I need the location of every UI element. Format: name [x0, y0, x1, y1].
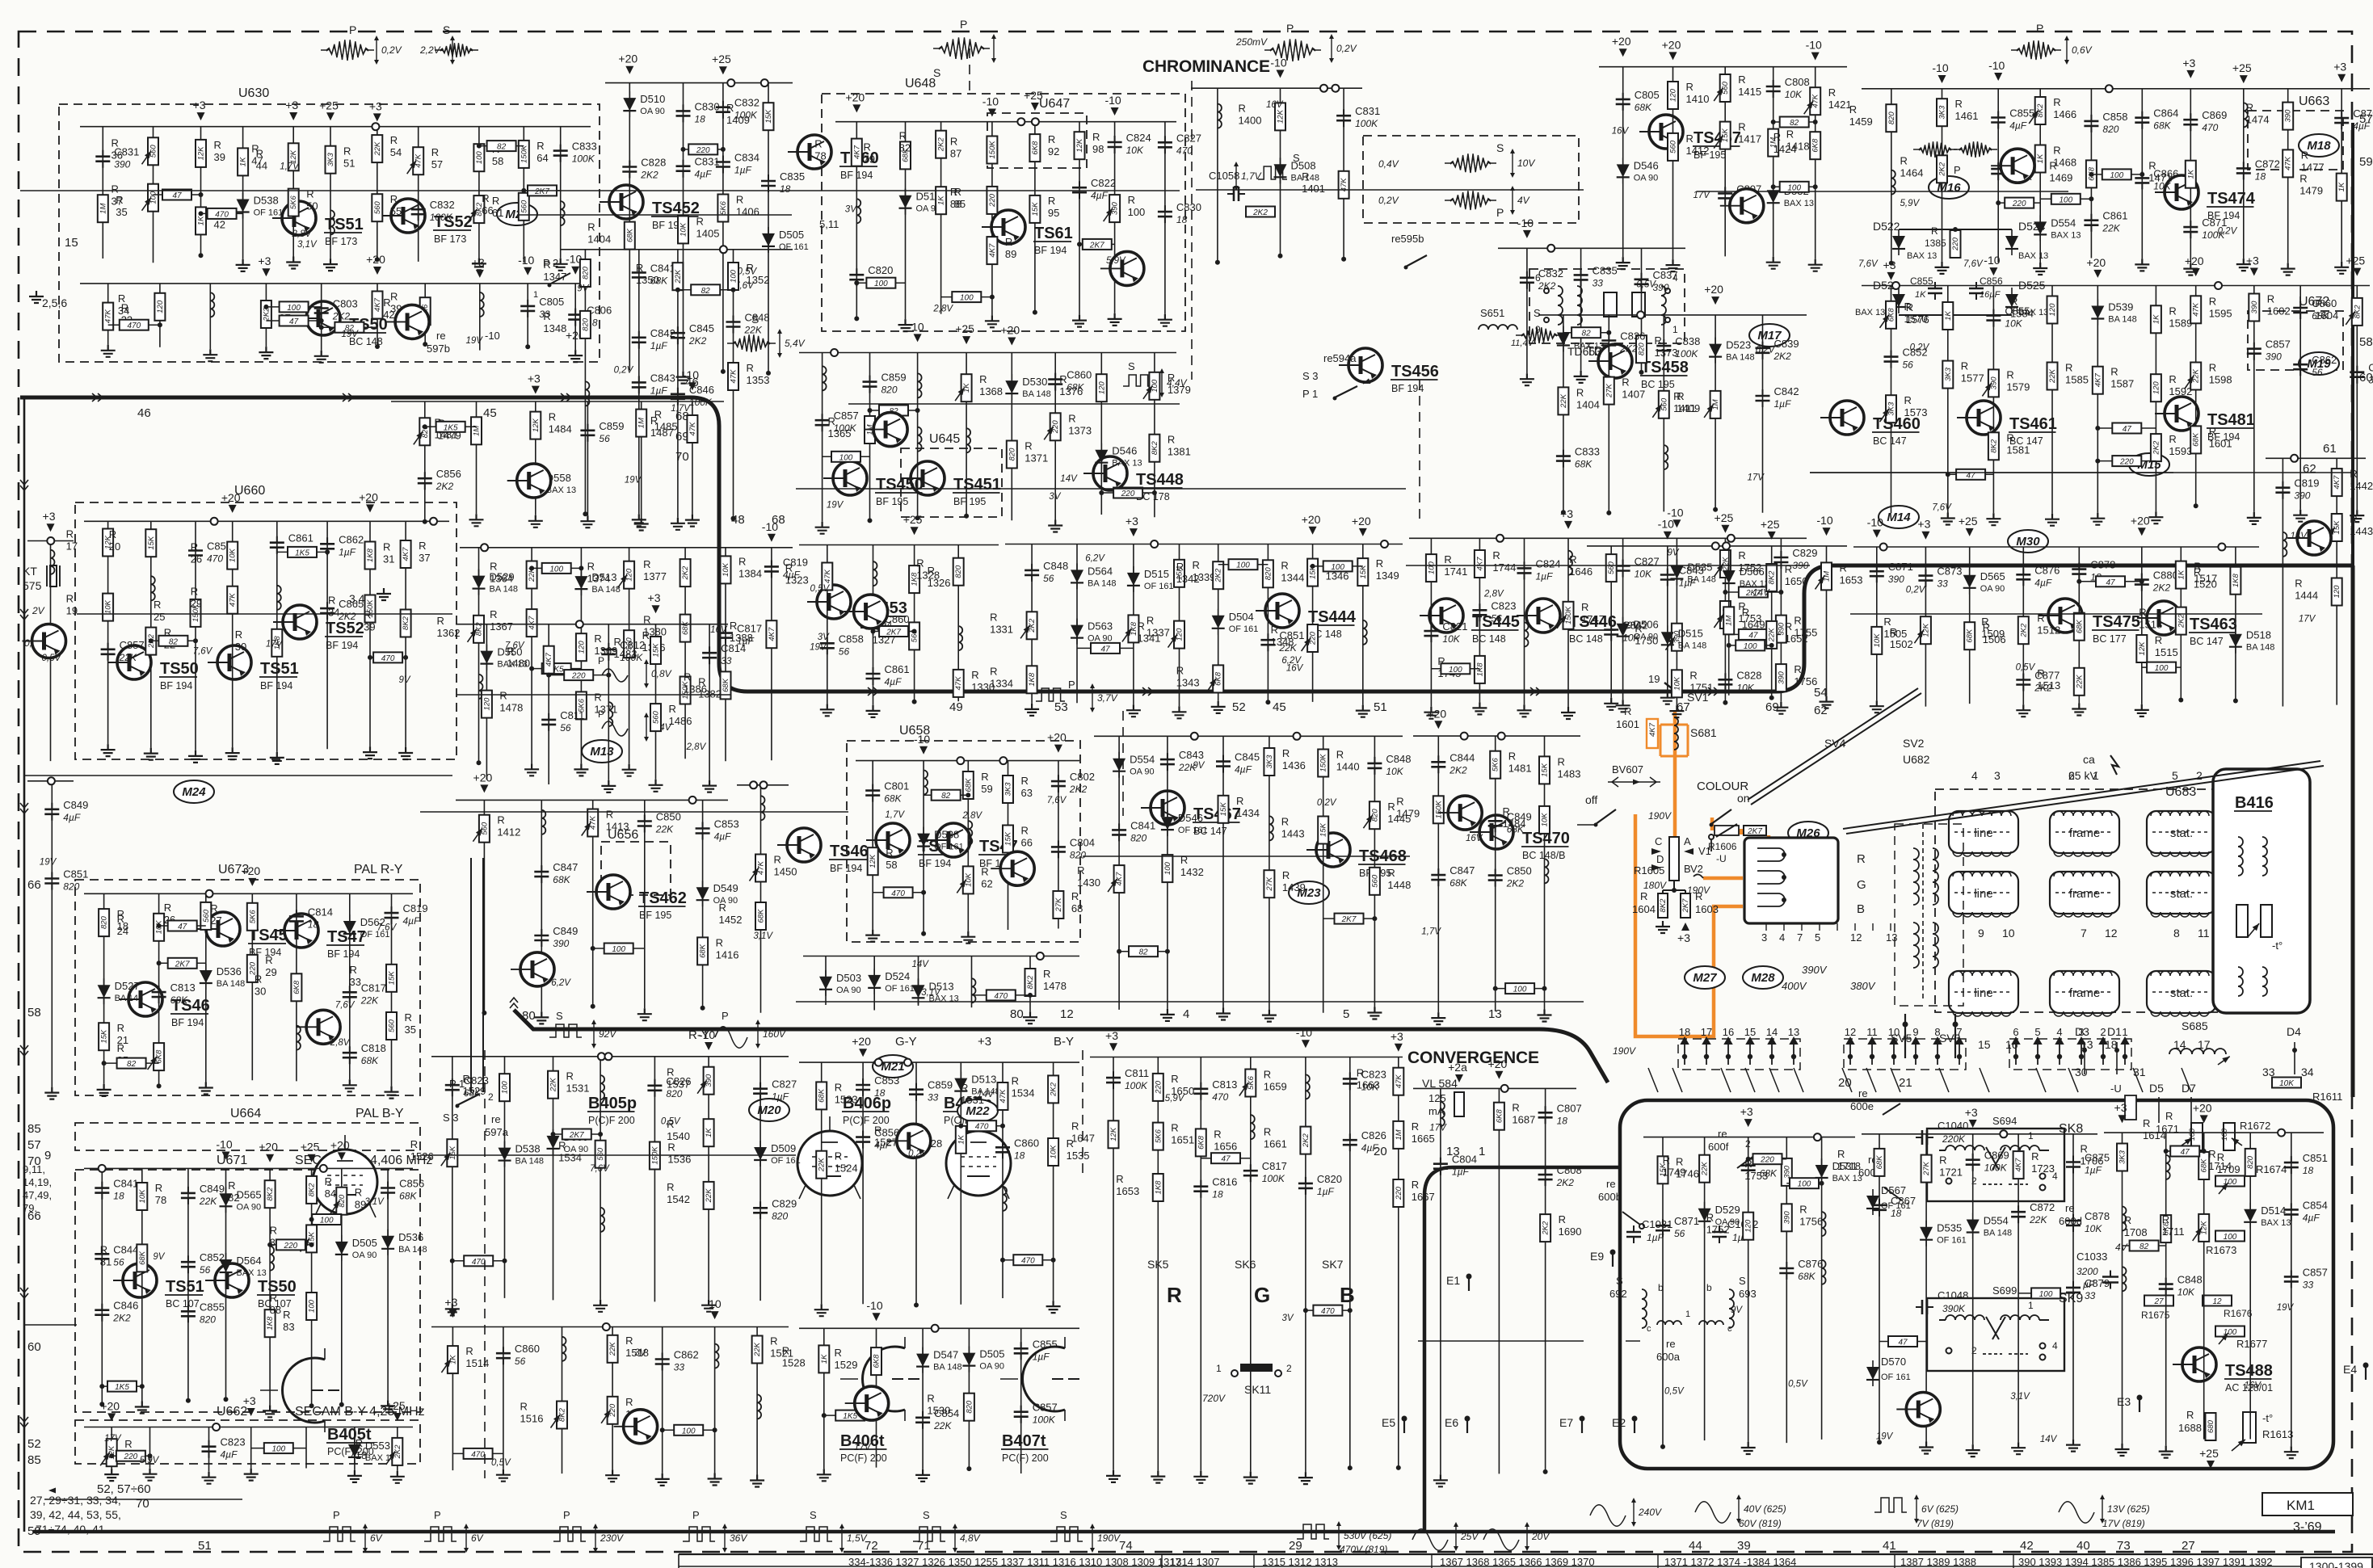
svg-text:BA 148: BA 148	[490, 585, 518, 595]
coil S693	[561, 201, 565, 225]
resistor R1368 1K	[961, 374, 972, 401]
svg-text:1401: 1401	[1302, 183, 1325, 195]
svg-text:2K2: 2K2	[112, 1313, 131, 1324]
svg-text:BAX 13: BAX 13	[2051, 230, 2081, 240]
svg-text:22K: 22K	[2075, 675, 2084, 690]
capacitor C828 10K	[1718, 679, 1732, 684]
svg-text:R: R	[1048, 133, 1055, 145]
module box U683	[1935, 789, 2285, 1012]
svg-text:100: 100	[475, 151, 484, 165]
resistor R103 bridge	[1079, 243, 1115, 245]
svg-text:1589: 1589	[2169, 317, 2192, 329]
svg-text:S 3: S 3	[443, 1112, 459, 1124]
wire rail ts450z4	[1011, 353, 1012, 521]
resistor R1418 bridge	[593, 948, 645, 949]
svg-text:1443: 1443	[1281, 828, 1305, 840]
wire chevron left	[20, 1417, 28, 1427]
tube B405p	[313, 1150, 377, 1214]
power +20 left5z2	[532, 386, 540, 394]
wire rail left5z2	[535, 401, 536, 515]
svg-text:R: R	[2350, 468, 2357, 480]
svg-text:D538: D538	[515, 1143, 541, 1155]
waveform at 2340	[1874, 1498, 1907, 1512]
coil S709	[51, 550, 55, 574]
svg-text:820: 820	[1264, 567, 1273, 581]
wire rail col36z0	[760, 785, 762, 1013]
svg-text:R: R	[2246, 102, 2253, 114]
node dot	[583, 511, 587, 516]
resistor R70 bridge	[924, 794, 968, 796]
node open	[1496, 535, 1504, 542]
svg-text:R: R	[835, 1347, 842, 1359]
capacitor C871 100K	[2183, 227, 2198, 232]
svg-text:19V: 19V	[810, 643, 827, 653]
resistor R1448 560	[1370, 868, 1380, 895]
svg-text:R: R	[437, 615, 444, 627]
svg-text:51: 51	[198, 1539, 212, 1553]
resistor R1534 2K2	[1048, 1075, 1058, 1103]
svg-text:1601: 1601	[2209, 437, 2232, 449]
resistor R1436 3K3	[1264, 748, 1274, 776]
svg-text:190V: 190V	[1648, 810, 1672, 822]
svg-text:C807: C807	[1557, 1102, 1582, 1114]
diode D529	[473, 576, 486, 589]
svg-text:7,6V: 7,6V	[335, 1001, 356, 1011]
resistor R1521 bridge	[2079, 581, 2142, 582]
svg-text:2: 2	[1286, 1363, 1292, 1374]
power +25 rightmid6	[2192, 268, 2200, 276]
ground left5z2	[528, 515, 543, 528]
ground u673z5	[343, 1079, 357, 1091]
svg-text:R: R	[2143, 1117, 2150, 1129]
resistor R26 10K	[227, 542, 238, 570]
wire rail ts450z0	[822, 353, 823, 522]
svg-text:1537: 1537	[667, 1078, 690, 1091]
svg-text:1348: 1348	[1271, 636, 1294, 648]
svg-text:D7: D7	[2182, 1082, 2196, 1095]
capacitor C811 100K	[1106, 1078, 1121, 1082]
trimmer arrow R1412	[473, 828, 482, 841]
diode D506	[1617, 624, 1630, 637]
pin lead 5	[2068, 1068, 2078, 1092]
svg-text:E1: E1	[1446, 1274, 1460, 1287]
svg-text:1595: 1595	[2209, 307, 2232, 319]
svg-text:19V: 19V	[625, 475, 642, 485]
transistor TS51	[217, 645, 251, 679]
wire rail u630a0	[102, 127, 103, 259]
svg-text:R: R	[1021, 775, 1029, 787]
ground rightmid9	[2350, 510, 2364, 522]
svg-text:120: 120	[577, 641, 586, 654]
capacitor C835 18	[761, 181, 776, 186]
bus right edge vertical	[2351, 565, 2355, 1097]
resistor R78 4K7	[852, 139, 862, 166]
svg-text:820: 820	[2246, 1155, 2255, 1169]
svg-text:22K: 22K	[753, 1342, 762, 1357]
svg-text:820: 820	[1008, 448, 1016, 461]
tag M22	[957, 1099, 998, 1122]
svg-text:P: P	[1068, 679, 1075, 691]
svg-text:1424: 1424	[1773, 143, 1797, 155]
block B416	[2213, 769, 2310, 1013]
svg-text:56: 56	[113, 1256, 124, 1267]
ground b405z0	[445, 1303, 460, 1315]
svg-text:BA 148: BA 148	[2108, 315, 2136, 325]
svg-text:1659: 1659	[1264, 1081, 1287, 1093]
node dot	[921, 931, 926, 936]
svg-text:S: S	[923, 1509, 930, 1521]
resistor R1573 3K3	[1886, 395, 1896, 422]
ground u630b2	[203, 349, 217, 361]
wire rail u664z2	[187, 1168, 189, 1400]
svg-text:+3: +3	[648, 591, 661, 604]
svg-text:18: 18	[874, 1087, 886, 1099]
wire rail ts453z2	[914, 545, 915, 702]
resistor R1407 27K	[1604, 377, 1614, 405]
svg-text:8K2: 8K2	[308, 1183, 317, 1197]
resistor R89 4K7	[987, 237, 997, 264]
svg-text:50: 50	[306, 200, 318, 212]
trimmer arrow R57	[407, 161, 416, 174]
svg-text:17V: 17V	[1748, 473, 1765, 482]
resistor R1483 bridge	[1998, 202, 2040, 204]
resistor R1367 4K7	[527, 609, 537, 637]
wire interconnect 8	[1850, 613, 2262, 615]
svg-text:12: 12	[2212, 1297, 2222, 1306]
svg-text:R: R	[1271, 624, 1278, 636]
tube B406p	[797, 1131, 862, 1196]
resistor R1381 8K2	[1149, 435, 1159, 462]
svg-text:47: 47	[1748, 631, 1758, 640]
svg-text:+25: +25	[1024, 89, 1043, 102]
svg-text:+20: +20	[2086, 256, 2106, 269]
tag M16	[1929, 176, 1969, 199]
wire rail mid6482	[1343, 88, 1344, 259]
transistor TS458	[1598, 344, 1632, 378]
svg-text:12K: 12K	[2138, 641, 2147, 656]
capacitor C837 390	[1635, 280, 1649, 284]
resistor R1709 68K	[2198, 1152, 2209, 1179]
transistor TS462	[596, 875, 630, 909]
svg-text:C830: C830	[1176, 201, 1201, 213]
power +3 skz4	[1302, 1040, 1310, 1048]
wire rail bus d520z	[460, 547, 793, 549]
capacitor C814 33	[702, 653, 717, 658]
svg-text:6,2V: 6,2V	[551, 978, 571, 988]
svg-text:16: 16	[1723, 1026, 1734, 1038]
wire rail d520z3	[629, 548, 630, 764]
wire rail b405tz6	[756, 1327, 758, 1475]
wire rail bus col36z	[737, 784, 789, 786]
svg-text:4µF: 4µF	[2034, 577, 2052, 588]
svg-text:+25: +25	[319, 99, 339, 111]
capacitor C848 56	[1025, 570, 1039, 575]
svg-text:4µF: 4µF	[2009, 120, 2027, 132]
svg-text:D538: D538	[934, 829, 959, 841]
wire rail d535z0	[1031, 544, 1033, 704]
svg-text:66: 66	[27, 1209, 41, 1223]
transistor TS492	[520, 952, 554, 986]
svg-text:2K7: 2K7	[1681, 898, 1690, 914]
svg-text:P(C)F 200: P(C)F 200	[843, 1115, 890, 1126]
svg-text:45: 45	[483, 406, 497, 420]
svg-text:U647: U647	[1039, 97, 1070, 111]
svg-text:2,5,6: 2,5,6	[42, 296, 67, 309]
svg-text:C808: C808	[1557, 1164, 1582, 1176]
wire rail e1z0	[1440, 1088, 1441, 1474]
ground b405z3	[593, 1300, 608, 1312]
power +3 rightmid9	[2353, 268, 2361, 276]
svg-text:P: P	[349, 23, 356, 36]
svg-text:line: line	[1974, 986, 1992, 1000]
resistor R1409 560	[1659, 391, 1669, 418]
diode D535	[1670, 566, 1683, 579]
svg-text:20: 20	[109, 540, 120, 553]
resistor R1443 15K	[1318, 817, 1328, 844]
capacitor C843 1µF	[1660, 575, 1675, 580]
svg-text:10K: 10K	[1622, 633, 1640, 644]
resistor R34 150K	[365, 595, 376, 623]
wire rail u658z4	[1058, 761, 1059, 929]
svg-text:1,5V: 1,5V	[847, 1532, 868, 1544]
wire rail u630a6	[377, 127, 378, 260]
resistor R58 12K	[868, 847, 878, 875]
resistor R19 bridge	[111, 1455, 149, 1457]
svg-text:R: R	[2006, 431, 2013, 443]
svg-text:BA 148: BA 148	[1678, 641, 1706, 650]
node open	[2291, 455, 2298, 462]
svg-text:1M: 1M	[637, 418, 646, 428]
svg-text:1721: 1721	[1939, 1167, 1963, 1179]
svg-text:R: R	[66, 593, 74, 605]
diode D503	[819, 977, 832, 990]
waveform at 705	[553, 1527, 586, 1541]
svg-text:SV4: SV4	[1824, 737, 1846, 750]
wire rail ts467z0	[1118, 736, 1120, 1010]
module box U658	[847, 741, 1080, 942]
svg-text:R: R	[2165, 1110, 2173, 1122]
svg-text:33: 33	[1937, 578, 1948, 590]
svg-text:C829: C829	[772, 1197, 797, 1209]
capacitor C830 18	[1158, 212, 1172, 216]
svg-text:6K8: 6K8	[1031, 141, 1040, 155]
svg-text:1756: 1756	[1794, 675, 1817, 687]
ground u630a10	[553, 259, 568, 271]
svg-text:10: 10	[2002, 927, 2015, 940]
svg-text:frame: frame	[2069, 887, 2100, 901]
ground d535z0	[1025, 704, 1039, 716]
capacitor C852 56	[1884, 357, 1899, 362]
svg-text:C858: C858	[2102, 111, 2127, 123]
trimmer arrow R1368	[955, 388, 965, 401]
svg-text:380V: 380V	[1850, 980, 1876, 992]
footer divider	[1657, 1554, 1659, 1568]
resistor R1443 15K	[2332, 514, 2342, 541]
svg-text:U671: U671	[217, 1154, 247, 1167]
wire chevron left	[20, 609, 28, 620]
wire rail ts444z0	[1430, 538, 1432, 706]
svg-text:8K2: 8K2	[266, 1187, 275, 1201]
svg-text:R: R	[1558, 755, 1565, 767]
svg-text:4µF: 4µF	[221, 1449, 238, 1461]
svg-text:+20: +20	[241, 864, 260, 877]
trimmer arrow R1750	[1665, 637, 1675, 649]
ground b406z0	[814, 1304, 829, 1316]
svg-text:+3: +3	[1965, 1106, 1978, 1119]
svg-text:C826: C826	[1361, 1129, 1386, 1141]
resistor R1488 bridge	[425, 426, 477, 427]
svg-text:1706: 1706	[2081, 1155, 2104, 1167]
capacitor C819 390	[2275, 488, 2290, 493]
coil S707	[1441, 1102, 1445, 1126]
capacitor C876 68K	[1779, 1268, 1794, 1273]
svg-text:1512: 1512	[2037, 624, 2060, 637]
trimmer arrow R89	[330, 1200, 340, 1213]
svg-text:33: 33	[721, 655, 732, 666]
wire rail bus u658z	[856, 760, 1079, 762]
svg-text:82: 82	[941, 792, 951, 801]
svg-text:9V: 9V	[1668, 548, 1680, 557]
wire rail ts475z5	[2141, 547, 2143, 704]
svg-text:2K2: 2K2	[1252, 208, 1268, 217]
transistor TS60	[797, 135, 831, 169]
svg-text:1416: 1416	[716, 948, 739, 961]
resistor R1464 2K2	[1937, 155, 1947, 183]
svg-text:66: 66	[27, 878, 41, 892]
wire rail bus ts450z	[799, 352, 1176, 354]
resistor R1647 12K	[1109, 1120, 1119, 1148]
resistor R1593 2K2	[2151, 434, 2161, 461]
svg-text:78: 78	[814, 150, 826, 162]
ground d535z4	[1211, 701, 1226, 713]
svg-text:1529: 1529	[835, 1359, 858, 1371]
svg-text:R: R	[1336, 749, 1344, 761]
trimmer arrow R61	[468, 209, 478, 222]
power +20 left5z5	[688, 382, 696, 390]
wire rail ts475z1	[1925, 547, 1926, 707]
resistor R104 bridge	[856, 282, 905, 284]
svg-text:7,6V: 7,6V	[505, 641, 525, 651]
svg-text:680: 680	[2207, 1419, 2215, 1433]
capacitor C866 10K	[2135, 178, 2149, 183]
power +25 kt5750	[47, 523, 55, 532]
node open	[1294, 733, 1301, 740]
svg-text:C849: C849	[200, 1183, 225, 1195]
wire rail u630b4	[321, 284, 322, 351]
svg-text:1714: 1714	[2208, 1160, 2232, 1172]
svg-text:16V: 16V	[1612, 127, 1630, 137]
svg-text:0,4V: 0,4V	[1378, 158, 1399, 170]
svg-text:22K: 22K	[1559, 393, 1568, 409]
svg-text:R: R	[1264, 1126, 1271, 1138]
resistor R1479 1K	[2337, 174, 2347, 201]
svg-text:C805: C805	[539, 296, 564, 308]
svg-text:820: 820	[1070, 849, 1086, 860]
svg-text:240V: 240V	[1638, 1507, 1662, 1518]
svg-text:1µF: 1µF	[339, 546, 356, 557]
svg-text:R: R	[2010, 296, 2017, 308]
svg-text:25 kV: 25 kV	[2068, 769, 2097, 782]
svg-text:1353: 1353	[747, 374, 770, 386]
diode D515	[1127, 573, 1140, 586]
tag M28	[1743, 966, 1783, 989]
wire colour highlight V2 link	[1703, 876, 1743, 881]
resistor R1486 bridge	[1496, 988, 1545, 990]
svg-text:68K: 68K	[1449, 877, 1467, 889]
svg-text:1343: 1343	[1176, 676, 1200, 688]
svg-text:P(C)F 200: P(C)F 200	[588, 1115, 635, 1126]
resistor R1646 560	[1606, 554, 1617, 582]
svg-text:U630: U630	[238, 86, 269, 100]
svg-text:R: R	[490, 608, 497, 620]
svg-text:22K: 22K	[119, 652, 137, 663]
resistor R1523 68K	[816, 1082, 827, 1109]
waveform at 1010	[800, 1527, 832, 1541]
resistor R1353 bridge	[1313, 565, 1363, 567]
bus convergence panel frame	[1620, 1100, 2333, 1469]
svg-text:mA: mA	[1428, 1105, 1445, 1117]
ground u630a4	[286, 257, 301, 269]
svg-text:SV2: SV2	[1903, 737, 1925, 750]
svg-text:4: 4	[1971, 769, 1978, 782]
wire rail d533z0	[584, 250, 586, 514]
power +20 u664z3	[222, 1152, 230, 1160]
svg-text:TS61: TS61	[1034, 225, 1073, 242]
svg-text:1371 1372 1374 -1384 1364: 1371 1372 1374 -1384 1364	[1664, 1556, 1796, 1568]
resistor R49 bridge	[266, 320, 321, 322]
svg-text:+20: +20	[845, 90, 865, 103]
svg-text:R: R	[814, 138, 822, 150]
node open	[430, 518, 437, 525]
svg-text:220K: 220K	[1942, 1133, 1966, 1145]
svg-text:-10: -10	[982, 95, 999, 108]
svg-text:R: R	[1576, 386, 1584, 398]
capacitor C857 100K	[815, 420, 830, 425]
svg-text:R: R	[1071, 890, 1079, 902]
svg-text:D527: D527	[115, 980, 140, 992]
diode D563	[1071, 625, 1083, 638]
coil S695	[608, 702, 612, 726]
svg-text:4K7: 4K7	[2333, 475, 2341, 490]
wire rail b405tz5	[714, 1327, 716, 1473]
svg-text:82: 82	[1138, 948, 1148, 957]
svg-text:54: 54	[390, 146, 402, 158]
trimmer arrow R1527	[905, 1138, 915, 1151]
svg-text:c: c	[1727, 1324, 1732, 1334]
wire rail ts450z5	[1054, 353, 1056, 520]
ground u664z7	[381, 1400, 395, 1412]
transistor TS474	[2165, 175, 2198, 209]
wire rail ts452col2	[722, 83, 724, 372]
svg-text:OF 161: OF 161	[254, 208, 284, 218]
svg-text:1515: 1515	[2155, 646, 2178, 658]
svg-text:R: R	[1302, 170, 1309, 183]
svg-text:13V (625): 13V (625)	[2107, 1503, 2150, 1515]
svg-text:11,4V: 11,4V	[1511, 338, 1535, 348]
svg-text:C849: C849	[63, 799, 88, 811]
resistor R55 560	[372, 194, 382, 221]
svg-text:4µF: 4µF	[714, 831, 732, 843]
svg-text:+3: +3	[1740, 1105, 1753, 1118]
wire rail orange-neigh1	[1667, 546, 1668, 692]
svg-text:1444: 1444	[2295, 590, 2318, 602]
capacitor C801 68K	[865, 791, 880, 796]
wire rail rightmid0	[1891, 286, 1892, 514]
trimmer arrow R1373	[1044, 427, 1054, 439]
svg-text:390: 390	[2284, 109, 2293, 123]
svg-text:1483: 1483	[1558, 767, 1581, 780]
diode D525	[2005, 294, 2018, 307]
